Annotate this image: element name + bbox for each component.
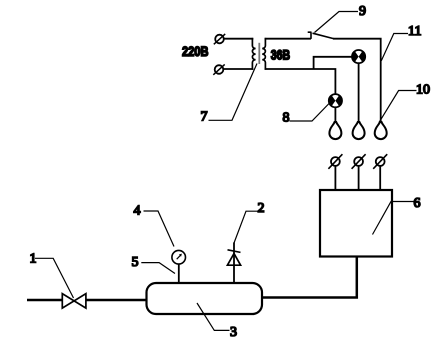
safety valve 2 crossbar [228, 250, 241, 253]
wire lamp HL2 to plug 1 [334, 107, 336, 122]
leader 5 [141, 263, 175, 274]
svg-text:6: 6 [414, 196, 421, 211]
wire jog to lamp HL1 [314, 57, 353, 69]
terminal X1 (primary top) [214, 34, 225, 44]
box 6 apparatus [320, 190, 392, 257]
terminal X2 (primary bottom) [213, 64, 224, 74]
svg-text:220В: 220В [182, 44, 209, 59]
leader 1 [35, 258, 74, 298]
switch SA1 blade [313, 33, 334, 38]
lamp HL2 [329, 94, 342, 107]
leader 4 [144, 211, 175, 247]
svg-text:2: 2 [258, 201, 265, 216]
terminal on box 2 [352, 154, 366, 190]
transformer T1 secondary winding [262, 38, 265, 70]
wire secondary top to switch [265, 38, 311, 40]
lamp HL1 [352, 50, 365, 63]
svg-text:1: 1 [30, 252, 37, 267]
svg-text:11: 11 [408, 24, 421, 39]
plug tip 3 [375, 122, 387, 139]
plug tip 2 [353, 122, 365, 139]
svg-text:4: 4 [134, 204, 141, 219]
terminal on box 3 [373, 154, 387, 190]
svg-text:9: 9 [359, 4, 366, 19]
switch SA1 pivot contact [308, 32, 312, 39]
transformer T1 primary winding [252, 38, 255, 70]
safety valve 2 body [227, 254, 240, 266]
wire secondary bottom to lamp HL2 [265, 69, 336, 95]
transformer T1 core [258, 43, 260, 64]
safety valve 2 stem [233, 243, 235, 285]
pipe inlet [27, 299, 63, 302]
leader 7 [209, 64, 258, 121]
wire switch to right column [333, 39, 381, 122]
terminal on box 1 [328, 154, 342, 190]
wire lamp HL1 to plug 2 [358, 63, 360, 122]
wire primary bottom [223, 68, 253, 70]
leader 6 [373, 202, 414, 235]
svg-text:8: 8 [283, 111, 290, 126]
svg-text:10: 10 [416, 83, 430, 98]
pressure gauge 4 [172, 250, 186, 264]
vessel 3 [147, 283, 263, 314]
leader 3 [197, 303, 230, 330]
plug tip 1 [329, 122, 341, 139]
svg-text:3: 3 [230, 325, 237, 340]
svg-text:5: 5 [132, 255, 139, 270]
svg-text:36В: 36В [271, 47, 291, 63]
pipe vessel to box [262, 257, 357, 298]
leader 10 [379, 91, 417, 123]
leader 11 [381, 34, 408, 61]
leader 2 [234, 211, 258, 243]
leader 9 [315, 12, 359, 33]
pipe valve to vessel [86, 299, 148, 302]
valve V1 [62, 294, 86, 309]
svg-text:7: 7 [201, 110, 208, 125]
gauge stub (5) [178, 264, 180, 284]
leader 8 [290, 103, 331, 122]
wire primary top [224, 38, 254, 40]
